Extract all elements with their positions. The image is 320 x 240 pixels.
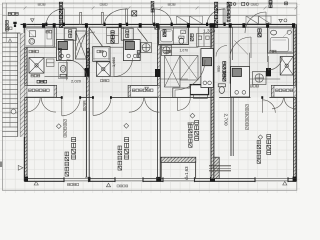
washbasin: unit B (circle with cross) — [162, 45, 172, 55]
genkan label: unit B — [190, 34, 193, 41]
meter box compartments above unit B — [177, 16, 203, 24]
marker: ground triangle below C — [106, 183, 110, 187]
storage box 2: unit B — [173, 88, 190, 97]
note: text right margin — [285, 2, 288, 5]
note: text under D window — [68, 183, 79, 185]
label: room C (6.0 tatami) — [125, 138, 129, 160]
label: unit B bath glyphs — [163, 30, 166, 37]
wall: partition unit C/B (hatched) — [157, 27, 160, 97]
bay/terrace wall (hatched) below room B — [161, 157, 196, 162]
unit bath: B (two compartments) — [159, 27, 189, 44]
door arc: unit C entry swing — [77, 32, 96, 51]
unit C bath box — [93, 47, 110, 62]
bay side walls — [161, 162, 195, 178]
window: room A south — [255, 177, 288, 182]
closet: unit B storage box — [190, 85, 208, 99]
closet: unit A (with label) — [271, 85, 296, 97]
wall: corridor south edge segments (y=76.6) — [45, 77, 281, 79]
shoe cabinet + genkan label: unit D — [64, 28, 76, 40]
washing machine: unit C — [96, 62, 110, 77]
genkan label: unit A — [258, 29, 261, 37]
meter marks above A walkway (box+circle pairs) — [229, 2, 249, 5]
wall: partition unit B/A — [211, 27, 214, 178]
entry door: unit D (swings out) — [46, 9, 64, 25]
upper cabinets: unit B hall — [197, 34, 212, 47]
note: label under washer D — [31, 75, 40, 77]
marker: room D diamond — [56, 124, 61, 129]
label: second column above unit A (vertical) — [227, 2, 230, 22]
label: short note above unit A — [269, 1, 272, 8]
marker: ground triangle below A — [283, 181, 287, 185]
kitchen counter: unit A — [231, 67, 250, 98]
fridge space with cross: unit D — [76, 31, 87, 59]
door arc: unit C bath/hall — [114, 58, 133, 77]
note: small col near partition D/C top — [84, 101, 87, 111]
label: fire extinguisher (top-left) — [8, 12, 18, 15]
note: dark label above closet D — [37, 80, 47, 83]
dimension figures along top rule — [38, 3, 45, 5]
marker: level triangle top-left — [31, 19, 35, 22]
marker: cross box right of C entry — [155, 25, 160, 30]
dimension line (top) — [2, 3, 297, 42]
scan tint over upper half — [24, 24, 296, 97]
marker: ground triangle below D — [34, 181, 38, 185]
closet doors: unit C (double swing) — [129, 97, 160, 112]
unit bath: D (toilet, basin) — [24, 27, 54, 47]
unit C entry: door leaf diagonal — [90, 28, 110, 57]
wall: hall/bath dividers (y=57.5 stubs) — [24, 27, 293, 66]
door arc: unit A entry hall — [230, 37, 251, 58]
sheet border frame — [2, 3, 296, 190]
fire extinguisher icon — [13, 22, 16, 27]
closet doors: unit A (double swing) — [272, 97, 296, 108]
window: room B south (balcony front) — [163, 177, 195, 182]
note: tiny marks in entry D — [46, 31, 52, 34]
note: laundry label on partition D/C (vertical) — [87, 49, 90, 69]
label: left margin note — [6, 21, 9, 32]
wall: bottom exterior — [24, 179, 296, 182]
wall: unit A entry west wall — [230, 27, 232, 84]
closet: unit D (with label) — [24, 85, 56, 97]
door arc: unit B corridor (large swing) — [175, 60, 205, 97]
WC room between B and A: toilet — [218, 84, 225, 94]
grid (decorative graph paper) — [0, 0, 300, 193]
marker: room B diamond — [190, 113, 195, 118]
door leaf diagonal: unit C hall — [138, 29, 148, 42]
wall: room front (north) wall with door openings — [24, 96, 296, 98]
pipe shaft (dark) on partition C/B — [155, 69, 160, 77]
entry door: unit A (swings out) — [207, 9, 225, 25]
pipe shaft (dark) on partition D/C — [85, 68, 90, 77]
note: label along D kitchen west side (vertical) — [59, 49, 62, 60]
walkway/porch edge line (outside top wall) — [2, 15, 296, 17]
label: room A (6.0 tatami) — [267, 135, 271, 155]
label: marks above unit B leaf — [151, 2, 154, 13]
window: room D south — [64, 177, 89, 182]
room door: unit C — [93, 97, 111, 115]
note: tiny text bottom margin center — [117, 185, 128, 187]
exterior staircase (west side) — [2, 33, 24, 137]
note: small marks below B bay — [188, 123, 194, 125]
piers on bottom wall — [24, 177, 296, 182]
closet: unit C (with label) — [128, 85, 160, 97]
meter box compartments above unit A — [246, 16, 271, 24]
note: laundry label unit A entry (vertical) — [223, 62, 226, 82]
closet doors: unit D (double swing) — [26, 97, 56, 112]
note text: room A ceiling note — [246, 105, 249, 130]
washing machine: unit A — [280, 57, 293, 76]
label: room B (5.6 tatami) — [195, 120, 199, 140]
note text: room D ceiling note — [64, 120, 67, 138]
washbasin: unit C (circle with cross) — [141, 43, 152, 53]
note: washroom label unit C — [97, 50, 103, 53]
toilet: unit D (corridor WC) — [59, 62, 68, 78]
door arc: unit A bath/hall — [268, 56, 282, 70]
marker: room C diamond — [124, 123, 129, 128]
marker: small circle near right walkway — [284, 19, 287, 22]
wall: top exterior — [21, 24, 297, 27]
unit C entry cabinet row — [107, 28, 119, 44]
label: meter box above unit D (vertical) — [59, 2, 62, 27]
washing machine: unit D — [29, 58, 44, 74]
note: tiny marks in corridor C — [101, 80, 110, 82]
note: washroom label unit A — [270, 50, 276, 53]
cabinet: unit D corridor — [47, 59, 55, 67]
wall: left exterior (hatched) — [24, 24, 27, 181]
wall: right exterior (hatched) — [294, 24, 297, 181]
door arc: unit D bath/hall — [67, 60, 87, 80]
marker: level triangle top-right — [279, 19, 283, 22]
label: unit C hall glyphs — [137, 51, 140, 58]
door arc: unit A door swing (high) — [245, 12, 266, 33]
entry door: unit C (swings out) — [105, 9, 128, 25]
sill band left of room A — [209, 166, 231, 171]
kitchen counter: unit C — [123, 40, 140, 61]
scan tint over whole sheet — [2, 3, 296, 190]
marker: triangle at stair foot — [18, 165, 23, 170]
fridge/washer crosses: unit B — [165, 56, 199, 88]
WC door arc — [216, 46, 227, 57]
piers on top wall — [23, 23, 295, 28]
label: meter box above unit B/A (vertical) — [215, 2, 218, 27]
marker: crossed box near unit C entry — [132, 11, 137, 16]
room door: unit B — [177, 97, 190, 110]
entry door: unit B (swings out) — [153, 9, 172, 25]
room door: unit D — [62, 97, 80, 115]
window: room C south — [115, 177, 143, 182]
marker: room A diamond — [258, 135, 263, 140]
marker: level triangle corridor C/B — [145, 87, 149, 90]
pipe shaft (dark) unit A side — [266, 68, 271, 76]
note: washroom label unit B — [165, 50, 171, 53]
note: marks at stair top landing — [6, 27, 12, 30]
wall: corridor/closet band top — [24, 84, 296, 86]
label: unit C entry (dark glyphs) — [111, 31, 114, 43]
wall: unit A room west wall (lower) — [231, 97, 233, 156]
scan smudge on left frame edge — [0, 162, 2, 168]
wall: partition unit D/C (hatched upper) — [86, 27, 89, 97]
shoe cabinet + genkan label: unit C — [121, 28, 133, 40]
unit bath: A (larger pod) — [268, 27, 294, 53]
kitchen counter: unit B — [201, 49, 213, 88]
kitchen counter: unit D (sink dark) — [56, 40, 73, 61]
washbasin: unit A (circle with cross) — [253, 72, 267, 85]
room door: unit A — [262, 97, 275, 112]
note: washroom label unit D — [29, 50, 38, 53]
wall: partition thickening at bay (hatched) — [214, 157, 219, 178]
door leaf jambs on walkway — [80, 13, 104, 25]
note: tiny marks in corridor A — [250, 85, 259, 87]
label: room D (6.0 tatami) — [72, 138, 76, 160]
